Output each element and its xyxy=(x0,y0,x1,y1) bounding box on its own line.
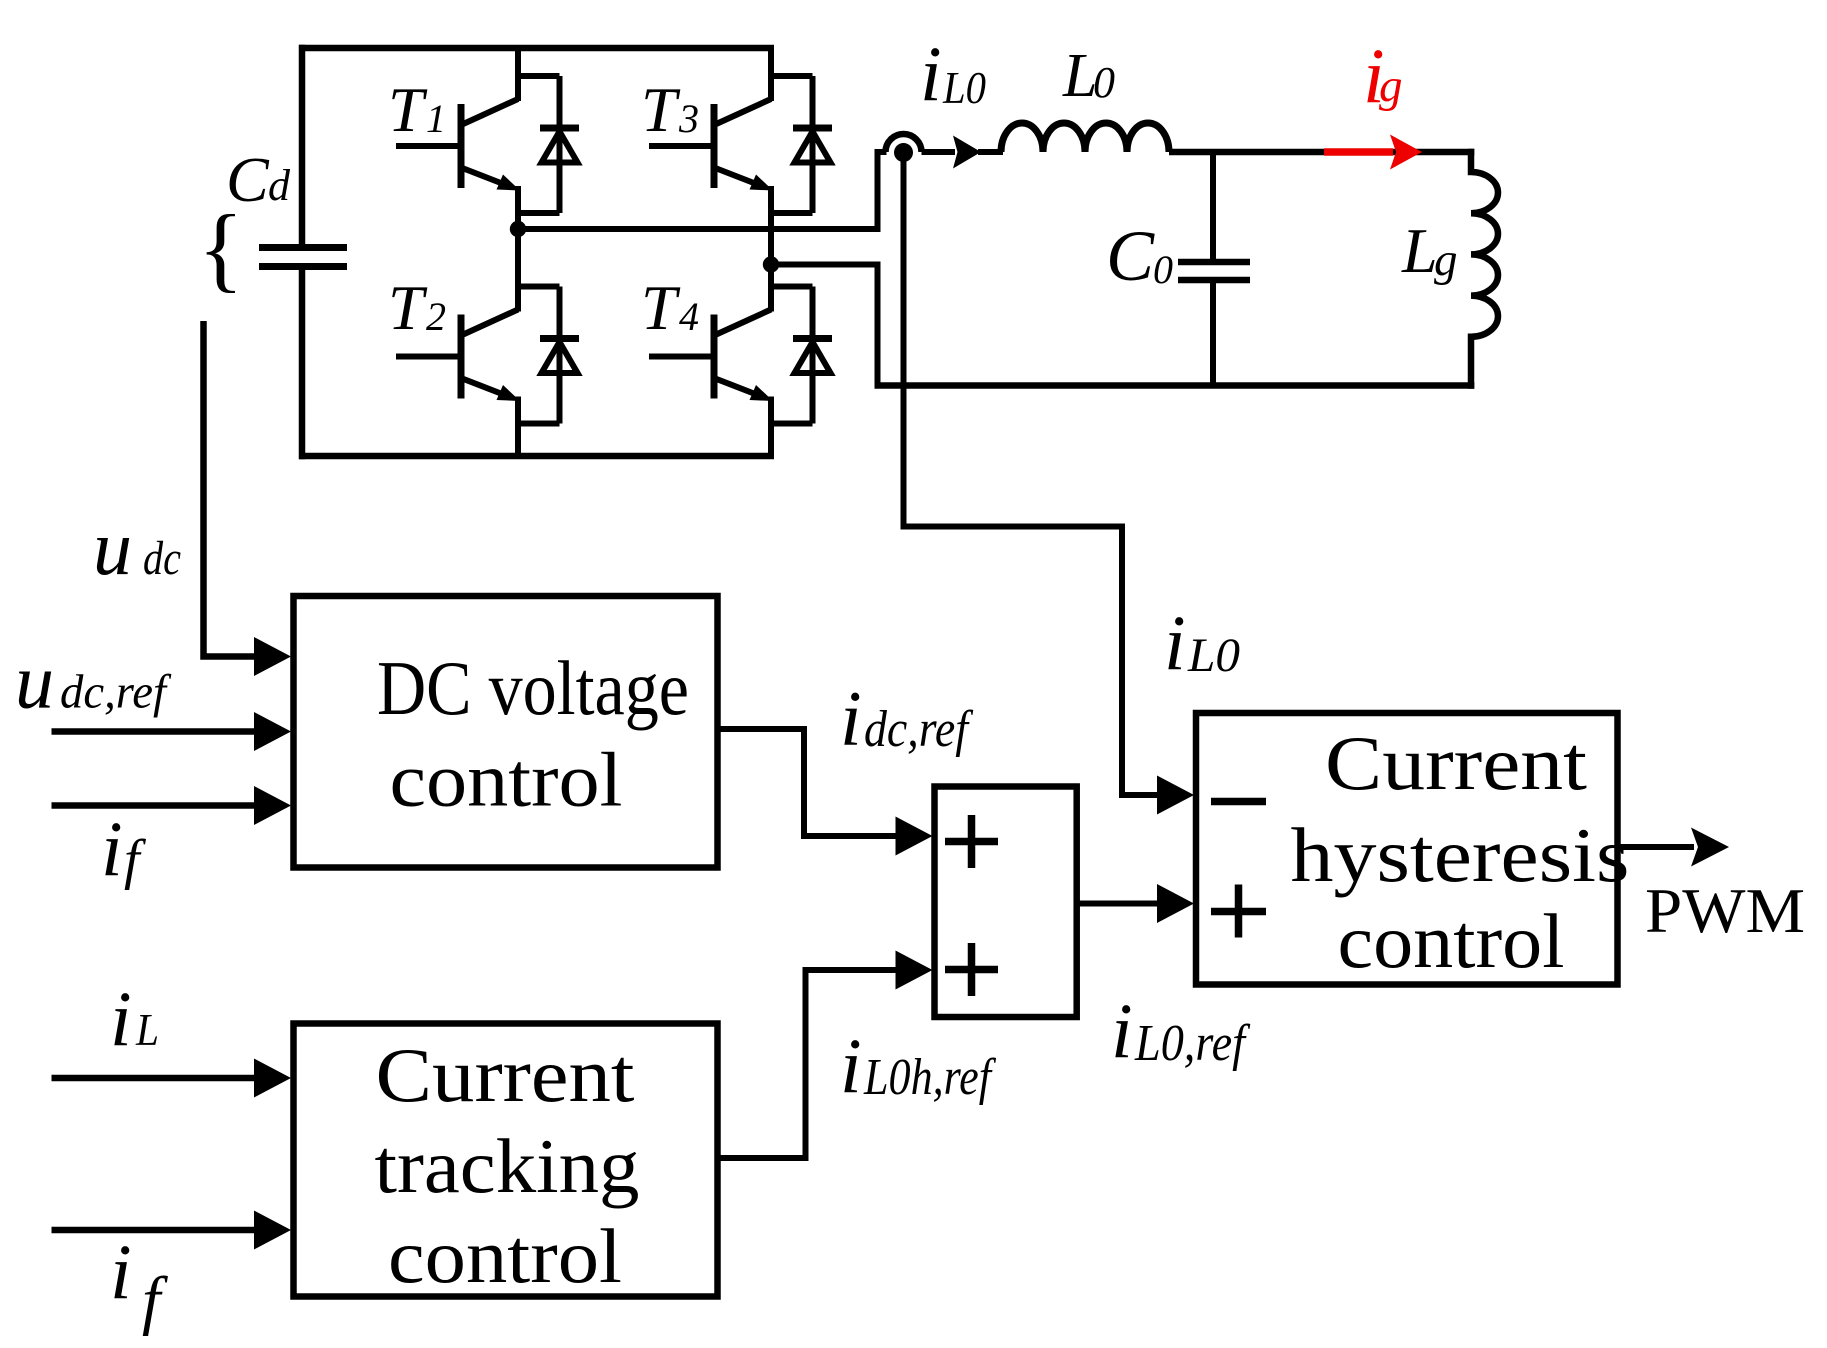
arrow iL0 direction on rail xyxy=(953,136,981,169)
node B (T3-T4 junction) xyxy=(763,256,779,272)
arrow u_dc,ref into DC voltage control xyxy=(254,712,291,751)
svg-text:T: T xyxy=(388,272,428,343)
current sensor hump xyxy=(886,134,922,152)
svg-text:dc: dc xyxy=(143,532,181,585)
svg-text:2: 2 xyxy=(426,294,446,339)
arrow iL0h,ref into summing xyxy=(896,951,933,990)
svg-text:PWM: PWM xyxy=(1645,876,1805,946)
capacitor C0 xyxy=(1178,259,1250,266)
inductor Lg xyxy=(1471,149,1498,389)
svg-text:L: L xyxy=(1401,215,1438,286)
svg-text:i: i xyxy=(840,1022,862,1109)
svg-text:4: 4 xyxy=(679,294,699,339)
block DC voltage control xyxy=(294,596,718,868)
wire node B to riser xyxy=(771,262,878,268)
svg-text:i: i xyxy=(101,805,123,892)
wire i_L input xyxy=(52,1075,255,1082)
svg-text:tracking: tracking xyxy=(375,1123,640,1209)
svg-text:L0: L0 xyxy=(1187,629,1240,682)
svg-text:0: 0 xyxy=(1093,58,1115,107)
wire T2 collector lead xyxy=(515,226,521,312)
wire u_dc,ref input xyxy=(52,728,255,735)
inductor L0 xyxy=(1001,123,1169,152)
wire summing output xyxy=(1077,901,1159,907)
svg-text:L0: L0 xyxy=(942,62,986,113)
svg-text:dc,ref: dc,ref xyxy=(60,666,172,719)
svg-text:Current: Current xyxy=(376,1032,635,1118)
block summing junction xyxy=(935,787,1077,1018)
wire L0 to Lg corner xyxy=(1169,149,1474,156)
diode of T3 xyxy=(768,76,832,213)
wire iL0h,ref (tracking output) xyxy=(718,970,897,1158)
wire iL0 sense line xyxy=(904,153,1159,796)
arrow into hysteresis minus input xyxy=(1157,776,1194,815)
svg-text:T: T xyxy=(388,74,428,145)
arrow ig (red) xyxy=(1324,148,1393,156)
svg-text:T: T xyxy=(641,272,681,343)
svg-text:hysteresis: hysteresis xyxy=(1291,812,1630,898)
svg-text:T: T xyxy=(641,74,681,145)
svg-text:dc,ref: dc,ref xyxy=(864,701,974,758)
wire filter bottom rail xyxy=(875,382,1475,389)
svg-text:Current: Current xyxy=(1325,720,1587,806)
capacitor Cd xyxy=(259,244,347,251)
svg-text:d: d xyxy=(268,161,291,210)
wire top DC rail xyxy=(299,45,774,52)
svg-text:i: i xyxy=(110,1228,132,1315)
svg-text:u: u xyxy=(93,504,132,591)
svg-text:3: 3 xyxy=(678,96,699,141)
svg-text:C: C xyxy=(1106,216,1155,296)
wire T4 emitter lead xyxy=(768,397,774,460)
svg-text:i: i xyxy=(920,30,942,117)
wire T2 emitter lead xyxy=(515,397,521,460)
wire node A to riser xyxy=(518,226,878,232)
svg-text:i: i xyxy=(1111,987,1133,1074)
wire T4 collector lead xyxy=(768,261,774,312)
svg-text:L0,ref: L0,ref xyxy=(1134,1015,1251,1072)
wire PWM output xyxy=(1618,844,1695,850)
svg-text:control: control xyxy=(388,1213,622,1299)
diode of T1 xyxy=(515,76,579,213)
node A (T1-T2 junction) xyxy=(510,221,526,237)
svg-text:L0h,ref: L0h,ref xyxy=(863,1049,996,1106)
svg-text:control: control xyxy=(1338,898,1565,984)
svg-text:g: g xyxy=(1379,60,1403,112)
svg-text:C: C xyxy=(226,144,270,215)
wire DC-link left vertical (lower) xyxy=(299,266,306,459)
svg-text:DC voltage: DC voltage xyxy=(377,645,689,731)
svg-text:g: g xyxy=(1434,234,1458,286)
transistor T2 xyxy=(396,310,520,402)
arrow i_f into tracking control xyxy=(254,1211,291,1250)
wire T1 emitter lead xyxy=(515,186,521,232)
transistor T1 xyxy=(396,99,520,191)
wire upper riser to sensor xyxy=(878,152,887,232)
svg-text:control: control xyxy=(390,737,623,823)
wire DC-link left vertical (upper) xyxy=(299,45,306,248)
wire i_f input (lower) xyxy=(52,1227,255,1234)
wire i_dc,ref (DC control output) xyxy=(718,729,897,836)
wire T3 emitter lead xyxy=(768,186,774,267)
wire C0 upper lead xyxy=(1210,152,1216,259)
svg-text:1: 1 xyxy=(426,96,446,141)
wire u_dc tap xyxy=(204,321,255,657)
arrow i_L into tracking control xyxy=(254,1059,291,1098)
arrow i_f into DC voltage control xyxy=(254,786,291,825)
wire sensor to arrow xyxy=(922,149,956,155)
svg-text:u: u xyxy=(15,638,54,725)
wire T3 collector lead xyxy=(768,45,774,101)
svg-text:0: 0 xyxy=(1153,247,1173,292)
arrow i_dc,ref into summing xyxy=(896,817,933,856)
transistor T3 xyxy=(649,99,773,191)
svg-text:i: i xyxy=(1164,599,1186,686)
wire bottom DC rail xyxy=(299,453,774,460)
svg-text:L: L xyxy=(135,1004,159,1055)
wire i_f input (upper) xyxy=(52,802,255,809)
block Current hysteresis control xyxy=(1196,713,1618,985)
current sensor dot xyxy=(894,143,913,162)
wire T1 collector lead xyxy=(515,45,521,101)
diode of T2 xyxy=(515,287,579,424)
wire lower riser to bottom rail xyxy=(878,262,882,386)
svg-text:i: i xyxy=(110,975,132,1062)
arrow u_dc into DC voltage control xyxy=(254,637,291,676)
transistor T4 xyxy=(649,310,773,402)
wire C0 lower lead xyxy=(1210,283,1216,389)
svg-text:i: i xyxy=(840,675,862,762)
arrow PWM output xyxy=(1691,828,1729,867)
diode of T4 xyxy=(768,287,832,424)
wire arrow to L0 xyxy=(978,149,1003,155)
block Current tracking control xyxy=(294,1024,718,1297)
arrow into hysteresis plus input xyxy=(1157,884,1194,923)
